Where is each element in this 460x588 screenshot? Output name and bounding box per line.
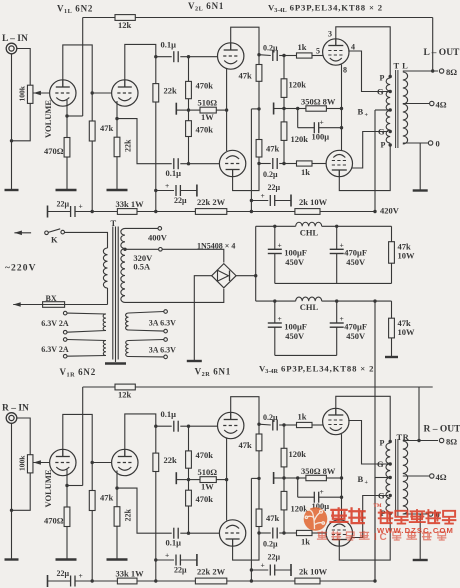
triode V2La (6N1): [218, 43, 244, 69]
resistor 470k upper: [186, 451, 192, 468]
bridge rectifier 1N5408 x4: [212, 264, 236, 288]
node V2a grid: [187, 425, 190, 428]
wire V2b plate under: [233, 164, 259, 191]
wire V4 plate to OPT: [339, 145, 390, 191]
svg-text:+: +: [165, 551, 169, 560]
node V1a plate / V1b grid: [91, 461, 94, 464]
node X: [282, 476, 285, 479]
wire 8-ohm tap: [403, 70, 438, 72]
wire jack to pot top: [17, 418, 30, 455]
svg-text:12k: 12k: [118, 20, 132, 30]
resistor 22k 2W: [195, 209, 226, 215]
wire shared cathode line: [226, 438, 228, 521]
wire to V1b grid: [92, 462, 112, 464]
resistor 47k 10W bleeder (L): [389, 242, 395, 264]
wire V3 screen to UL tap: [348, 51, 388, 92]
svg-text:+: +: [79, 571, 83, 580]
svg-text:510Ω: 510Ω: [198, 97, 218, 107]
svg-text:350Ω 8W: 350Ω 8W: [301, 96, 336, 106]
wire 4-ohm tap: [403, 475, 430, 477]
wire V4 screen to UL tap: [352, 132, 388, 169]
node bias: [296, 107, 299, 110]
capacitor 100u bypass: [298, 496, 315, 498]
wire switch to primary: [65, 232, 108, 248]
svg-text:120k: 120k: [291, 503, 309, 513]
node P bottom: [389, 143, 392, 146]
ground (bridge): [187, 360, 202, 362]
svg-text:12k: 12k: [118, 389, 132, 399]
wire B+ tap to supply: [375, 109, 390, 111]
ground (input L): [5, 189, 19, 191]
resistor 12k NFB: [115, 15, 135, 21]
svg-text:B: B: [358, 107, 364, 117]
wire 0 tap to ground: [419, 143, 421, 191]
svg-text:470k: 470k: [196, 494, 214, 504]
wire V1b plate up: [125, 44, 156, 87]
capacitor 100uF 450V (L): [274, 226, 276, 249]
electrolytic 22u at node C: [250, 568, 253, 571]
heater winding 6.3V 2A #2: [63, 338, 67, 342]
svg-text:8Ω: 8Ω: [446, 436, 457, 446]
resistor 22k cathode load: [114, 507, 120, 527]
wire to grounded node X: [283, 97, 285, 108]
electrolytic 22u at node A: [47, 575, 49, 587]
svg-text:6.3V 2A: 6.3V 2A: [41, 319, 69, 328]
svg-text:33k 1W: 33k 1W: [116, 199, 145, 209]
wire B+ riser to OPT tap: [374, 478, 376, 582]
node cathode/100u: [340, 496, 343, 499]
capacitor 0.2u lower: [259, 532, 271, 534]
wire to V2a grid: [189, 56, 219, 58]
wire pot bottom to ground line: [12, 103, 31, 140]
node 470k midpoint: [187, 478, 190, 481]
resistor 510R 1W: [200, 107, 216, 113]
wire supply riser node C: [250, 478, 252, 581]
wire node X to bias network: [284, 477, 298, 479]
capacitor 100u bypass: [298, 127, 315, 129]
svg-text:1W: 1W: [201, 112, 214, 122]
node V2b grid: [187, 532, 190, 535]
svg-text:2k 10W: 2k 10W: [299, 566, 328, 576]
svg-text:K: K: [51, 235, 58, 245]
node bridge output: [254, 274, 257, 277]
wire R supply drop to R channel: [374, 301, 376, 581]
wire shared cathode line: [226, 68, 228, 151]
wire V2a plate up/over: [231, 397, 259, 425]
wire 47k to supply node A: [91, 141, 93, 212]
svg-text:P: P: [381, 141, 386, 150]
svg-text:510Ω: 510Ω: [198, 467, 218, 477]
svg-text:+: +: [340, 241, 344, 250]
wire NFB riser: [82, 18, 84, 117]
electrolytic 22u at node C: [250, 199, 253, 202]
resistor 47k V2b plate load: [256, 509, 262, 527]
svg-text:0.1μ: 0.1μ: [161, 409, 177, 419]
terminal 320V tap: [159, 248, 163, 252]
heater winding 6.3V 2A #1: [63, 311, 67, 315]
wire 470k to midpoint: [188, 468, 190, 479]
wire to V2b grid: [189, 163, 221, 165]
node jack-ground/pot-bottom: [10, 509, 13, 512]
wire bus A-33k: [92, 580, 117, 582]
svg-text:100k: 100k: [17, 455, 26, 471]
svg-text:33k 1W: 33k 1W: [116, 568, 145, 578]
svg-text:22μ: 22μ: [174, 565, 187, 574]
triode V2Ra (6N1): [218, 412, 244, 438]
wire NFB to output 8-ohm tap: [135, 386, 432, 388]
svg-text:450V: 450V: [285, 257, 305, 267]
svg-text:22μ: 22μ: [57, 200, 70, 209]
node B+ tap: [389, 108, 392, 111]
node V1a plate / V1b grid: [91, 91, 94, 94]
svg-text:100μF: 100μF: [284, 321, 307, 331]
node V1a cathode: [65, 114, 68, 117]
svg-text:T L: T L: [394, 60, 409, 70]
svg-text:22k 2W: 22k 2W: [197, 566, 226, 576]
wire shared cathode line of output tubes: [341, 65, 343, 152]
wire 1k to V3 grid: [312, 55, 323, 57]
node G tap lower: [389, 130, 392, 133]
capacitor 470uF 450V (L): [336, 226, 338, 249]
fuse BX arrow: [13, 304, 42, 306]
node B+ tap: [389, 476, 392, 479]
node cathode/100u: [340, 126, 343, 129]
node B+ tap for 47k loads: [257, 107, 260, 110]
svg-text:VOLUME: VOLUME: [43, 469, 53, 507]
wire NFB vertical: [432, 18, 434, 72]
svg-text:1N5408 × 4: 1N5408 × 4: [197, 242, 235, 251]
svg-text:+: +: [165, 181, 169, 190]
resistor 47k (V1a plate load): [89, 121, 95, 141]
node C: [250, 210, 253, 213]
node R rail end: [373, 299, 376, 302]
node V4 grid leak: [282, 531, 285, 534]
wire pot bottom to ground line: [12, 473, 31, 510]
resistor 2k 10W: [295, 209, 320, 215]
svg-text:1k: 1k: [301, 167, 310, 177]
svg-text:G: G: [378, 126, 385, 136]
svg-text:47k: 47k: [239, 70, 253, 80]
svg-text:470k: 470k: [196, 125, 214, 135]
resistor 47k 10W bleeder (R): [389, 318, 395, 338]
resistor 12k NFB: [115, 384, 135, 390]
node V2a plate: [257, 423, 260, 426]
electrolytic 22u at node B: [154, 189, 157, 192]
transformer T core: [112, 227, 114, 360]
wire bus 2k-420V: [320, 211, 375, 213]
node 470k midpoint: [187, 108, 190, 111]
wire filter input riser: [255, 226, 257, 301]
terminal 8 ohm: [439, 69, 443, 73]
wire jack sleeve down: [11, 423, 13, 559]
ground (V1a cathode): [56, 189, 77, 191]
wire cathode to NFB riser: [67, 485, 83, 487]
svg-text:V1L 6N2: V1L 6N2: [57, 4, 93, 16]
output transformer TL secondary: [403, 72, 408, 144]
node C: [250, 579, 253, 582]
wire to grounded node X: [283, 467, 285, 478]
wire jack to pot top: [17, 49, 30, 86]
ground (V1b cathode): [107, 189, 128, 191]
wire bus 2k-420V: [320, 580, 375, 582]
svg-text:47k: 47k: [239, 440, 253, 450]
svg-text:47k: 47k: [266, 513, 280, 523]
svg-text:3A 6.3V: 3A 6.3V: [149, 318, 176, 327]
resistor 47k (V1a plate load): [89, 491, 95, 511]
svg-text:G: G: [378, 490, 385, 500]
svg-text:120k: 120k: [289, 79, 307, 89]
node A: [91, 579, 94, 582]
node V2a grid: [187, 55, 190, 58]
svg-text:22k: 22k: [124, 509, 133, 522]
transformer core: [395, 439, 397, 516]
resistor 2k 10W: [295, 578, 320, 584]
resistor 350R 8W: [306, 106, 327, 111]
svg-text:P: P: [380, 73, 385, 82]
electrolytic 22u at node B: [154, 558, 157, 561]
wire 320V to bridge: [162, 249, 224, 262]
svg-text:400V: 400V: [148, 233, 168, 243]
svg-text:L – OUT: L – OUT: [424, 48, 460, 58]
svg-text:6.3V 2A: 6.3V 2A: [41, 345, 69, 354]
svg-text:WWW.DZSC.COM: WWW.DZSC.COM: [377, 526, 454, 535]
wire R rail right: [322, 300, 375, 302]
svg-text:5: 5: [316, 47, 320, 56]
wire 1k to V3 grid: [312, 424, 323, 426]
svg-text:3: 3: [328, 30, 332, 39]
wire 120k lower to V4 grid node: [283, 140, 285, 163]
wire 4-ohm tap: [403, 103, 430, 105]
svg-text:0.2μ: 0.2μ: [263, 413, 278, 422]
wire V2b plate under: [233, 533, 259, 560]
svg-text:TM: TM: [374, 504, 382, 509]
wire V1b plate up: [125, 414, 156, 457]
capacitor 0.2u upper: [259, 54, 271, 57]
wire V3 screen to UL tap: [348, 421, 388, 465]
wire NFB to output 8-ohm tap: [135, 17, 432, 19]
resistor 22k cathode load: [114, 137, 120, 157]
node NFB takeoff: [431, 69, 434, 72]
wire bus 22k2W-C: [227, 211, 295, 213]
power tube V4R (6P3P/EL34/KT88) inverted: [326, 520, 352, 546]
node V3 grid leak: [282, 54, 285, 57]
capacitor 0.1u lower: [173, 528, 175, 539]
power tube V4L (6P3P/EL34/KT88) inverted: [326, 150, 352, 176]
wire R rail: [256, 300, 296, 302]
resistor 22k (V1b plate load): [153, 453, 159, 471]
svg-text:B: B: [358, 474, 364, 484]
svg-text:10W: 10W: [398, 251, 416, 261]
wire cathode tap to lower coupling cap: [117, 119, 172, 164]
svg-text:+: +: [320, 118, 324, 127]
wire to V2b grid: [189, 532, 221, 534]
node 470uF R: [335, 299, 338, 302]
svg-text:100μF: 100μF: [284, 248, 307, 258]
terminal 400V: [158, 227, 162, 231]
svg-text:450V: 450V: [346, 257, 366, 267]
svg-text:R – OUT: R – OUT: [424, 425, 460, 435]
node V4 grid leak: [282, 162, 285, 165]
power tube V3L (6P3P/EL34/KT88): [323, 39, 349, 65]
wire 22k down to supply node B: [155, 102, 157, 212]
output transformer TL primary: [386, 78, 390, 143]
svg-text:470k: 470k: [196, 80, 214, 90]
wire to B+ tap node: [258, 451, 260, 479]
resistor 470k lower: [186, 121, 192, 137]
node G tap upper: [389, 462, 392, 465]
svg-text:V2L 6N1: V2L 6N1: [188, 1, 224, 13]
switch K: [45, 231, 49, 235]
wire NFB top run: [83, 386, 115, 388]
node A: [91, 210, 94, 213]
wire NFB riser: [82, 387, 84, 486]
capacitor 470uF 450V (R): [336, 301, 338, 323]
wire to ground: [116, 157, 118, 190]
node P top: [389, 75, 392, 78]
svg-text:22μ: 22μ: [268, 183, 281, 192]
node cathode tie: [225, 108, 228, 111]
node V2a plate: [257, 53, 260, 56]
svg-text:~220V: ~220V: [5, 264, 37, 274]
watermark slogan IC purchase site: [318, 531, 328, 539]
capacitor 0.1u upper: [156, 425, 172, 427]
wire 0 tap to ground: [419, 514, 421, 560]
HV secondary winding 320V: [121, 228, 125, 302]
svg-text:G: G: [377, 87, 384, 97]
ground (input R): [5, 558, 19, 560]
wire 470R to ground: [66, 527, 68, 560]
watermark logo branches: [305, 508, 324, 530]
svg-text:0.1μ: 0.1μ: [161, 40, 177, 50]
triode V2Lb (6N1) inverted: [219, 150, 245, 176]
wire V1a plate up: [63, 45, 92, 121]
svg-text:+: +: [261, 191, 265, 200]
resistor 47k V2a plate load: [256, 434, 262, 451]
svg-text:3A 6.3V: 3A 6.3V: [149, 345, 176, 354]
triode V2Rb (6N1) inverted: [219, 520, 245, 546]
wire to ground: [116, 526, 118, 559]
resistor 47k V2a plate load: [256, 65, 262, 82]
svg-text:22k 2W: 22k 2W: [197, 197, 226, 207]
terminal 4 ohm: [430, 101, 434, 105]
fuse BX: [43, 302, 65, 308]
svg-text:4: 4: [351, 43, 355, 52]
node V1b plate: [154, 425, 157, 428]
resistor 33k 1W: [117, 578, 137, 584]
wire bus 33k-B: [137, 580, 195, 582]
power transformer T primary 220V: [103, 248, 107, 288]
wire bias down: [297, 109, 299, 128]
svg-text:G: G: [377, 459, 384, 469]
wire 22k down to supply node B: [155, 472, 157, 582]
wire V1a plate up: [63, 414, 92, 490]
wire bias down: [297, 478, 299, 497]
terminal 0: [428, 141, 432, 145]
wire L ground rail: [275, 282, 392, 284]
resistor 22k 2W: [195, 578, 226, 584]
wire cathode tap to lower coupling cap: [117, 488, 172, 533]
node 320V tap: [123, 248, 126, 251]
wire bridge minus to ground: [194, 276, 211, 361]
wire V3 plate to OPT: [336, 396, 390, 441]
svg-text:120k: 120k: [291, 134, 309, 144]
svg-text:I C: I C: [374, 532, 387, 543]
svg-text:100k: 100k: [17, 85, 26, 101]
watermark text weiku: [331, 508, 348, 522]
capacitor 0.1u lower: [173, 158, 175, 169]
input jack J-L: [6, 43, 17, 54]
wire 470k to midpoint: [188, 99, 190, 110]
svg-text:+: +: [365, 113, 369, 119]
potentiometer 100k VOLUME: [27, 455, 33, 473]
svg-text:CHL: CHL: [300, 302, 319, 312]
wire bridge plus to filter: [236, 275, 256, 277]
svg-text:BX: BX: [46, 294, 57, 303]
ground (R bleeder): [385, 356, 398, 358]
svg-text:1k: 1k: [298, 412, 307, 422]
svg-text:10W: 10W: [398, 327, 416, 337]
ground (secondary): [413, 559, 428, 561]
switch K arrow: [14, 232, 31, 234]
node V2b plate: [257, 162, 260, 165]
triode V1Ra (6N2): [50, 449, 76, 475]
svg-text:+: +: [79, 202, 83, 211]
svg-text:22k: 22k: [124, 139, 133, 152]
svg-text:8: 8: [343, 66, 347, 75]
wire L rail right: [322, 225, 392, 227]
wire B+ tap to supply: [375, 477, 390, 479]
svg-text:+: +: [261, 561, 265, 570]
wire 47k to supply node A: [91, 511, 93, 582]
wire V4 plate to OPT: [339, 514, 390, 561]
resistor 470R cathode: [64, 138, 70, 158]
svg-text:22k: 22k: [164, 85, 178, 95]
svg-text:47k: 47k: [100, 492, 114, 502]
watermark logo circle: [304, 507, 328, 531]
svg-text:470k: 470k: [196, 450, 214, 460]
wire V1a cathode: [66, 470, 68, 486]
wire bus A-33k: [92, 211, 117, 213]
terminal 8 ohm: [439, 438, 443, 442]
ground (V1b cathode): [107, 558, 128, 560]
svg-text:470μF: 470μF: [344, 248, 367, 258]
pot wiper arrow: [33, 462, 50, 464]
node B: [154, 579, 157, 582]
node B+ tap for 47k loads: [257, 477, 260, 480]
resistor 1k lower: [297, 530, 313, 535]
svg-text:450V: 450V: [346, 331, 366, 341]
node V1b cathode: [115, 486, 118, 489]
wire V1a cathode: [66, 100, 68, 116]
ground bar at node X: [273, 472, 275, 484]
wire 400V tap: [125, 227, 158, 229]
node cathode/350R: [340, 107, 343, 110]
wire shared cathode line of output tubes: [341, 434, 343, 521]
resistor 22k (V1b plate load): [153, 84, 159, 102]
terminal 0: [428, 512, 432, 516]
input jack J-R: [6, 413, 17, 424]
wire HV bottom to bridge: [125, 289, 224, 303]
wire bus 22k2W-C: [227, 580, 295, 582]
node X: [282, 107, 285, 110]
node cathode/350R: [340, 476, 343, 479]
wire R rail to bleeder: [375, 300, 392, 302]
wire jack sleeve down: [11, 54, 13, 190]
node 100uF R: [273, 299, 276, 302]
transformer core: [395, 70, 397, 148]
node jack-ground/pot-bottom: [10, 139, 13, 142]
choke CHL (L): [296, 222, 322, 226]
